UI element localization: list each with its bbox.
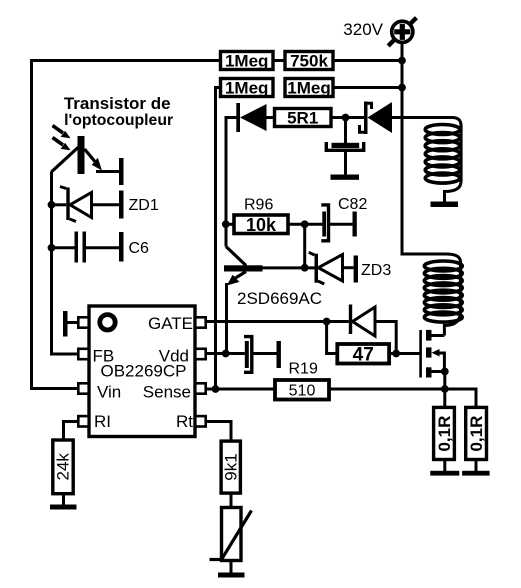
node ZD1	[48, 201, 56, 209]
wire diode to 5R1	[267, 116, 275, 119]
wire Sense row right to shunts	[329, 389, 476, 407]
thermistor	[210, 508, 252, 561]
node R96 right	[301, 220, 309, 228]
inductor primary top coil	[425, 125, 461, 184]
wire C82 node down to base node	[303, 224, 306, 267]
resistor 1Meg (row2 left)	[221, 79, 274, 98]
ground bar ZD1	[119, 191, 124, 219]
svg-text:24k: 24k	[54, 453, 73, 481]
node source	[441, 368, 449, 376]
svg-text:0,1R: 0,1R	[467, 416, 486, 452]
pin RI square	[78, 416, 88, 426]
wire GATE row	[206, 320, 349, 323]
pin Sense square	[195, 383, 205, 393]
wire gate diode right corner down	[375, 322, 396, 354]
resistor 0.1R left	[434, 407, 455, 459]
capacitor snubber	[326, 142, 363, 150]
node R96 left	[222, 220, 230, 228]
wire schottky to top coil	[392, 118, 461, 126]
resistor 750k	[285, 52, 333, 71]
ground under 24k	[50, 505, 77, 510]
wire ZD3 anode to ground bar	[344, 266, 354, 269]
pin Rt square	[195, 416, 205, 426]
capacitor C82	[321, 205, 328, 241]
resistor 24k	[53, 440, 73, 494]
node Vdd	[222, 350, 230, 358]
svg-text:ZD1: ZD1	[129, 197, 159, 214]
svg-text:2SD669AC: 2SD669AC	[237, 289, 322, 308]
wire FB rail up to opto collector	[52, 172, 79, 355]
wire Vdd row	[206, 352, 245, 355]
node gate diode left	[323, 318, 331, 326]
capacitor C6	[75, 232, 87, 263]
svg-text:C82: C82	[338, 196, 367, 213]
node 47 right	[392, 350, 400, 358]
wire 47 right to mosfet gate	[389, 352, 420, 355]
ground under 0.1R left	[430, 471, 459, 476]
svg-text:47: 47	[353, 344, 374, 365]
svg-text:Rt: Rt	[176, 412, 193, 431]
wire mosfet body to source node	[432, 353, 445, 372]
wire opto emitter to ground bar	[96, 170, 119, 173]
wire top coil exit to ground	[445, 182, 462, 203]
resistor 5R1	[275, 109, 332, 128]
wire row1 right to 320V rail	[333, 59, 402, 62]
svg-text:0,1R: 0,1R	[435, 416, 454, 452]
wire RI to 24k	[64, 422, 79, 441]
svg-text:1Meg: 1Meg	[225, 79, 268, 98]
svg-text:10k: 10k	[246, 215, 277, 235]
svg-text:Vin: Vin	[97, 383, 121, 402]
wire pin1 to ground bar	[68, 321, 79, 324]
ground under thermistor	[218, 573, 245, 578]
svg-text:ZD3: ZD3	[361, 262, 391, 279]
svg-text:9k1: 9k1	[222, 453, 241, 480]
wire C6 right to ground bar	[86, 246, 119, 249]
resistor 1Meg (row1)	[221, 52, 274, 71]
resistor 10k	[234, 215, 288, 235]
ground bar opto emitter	[119, 158, 124, 185]
svg-text:l'optocoupleur: l'optocoupleur	[64, 112, 173, 129]
transistor Q2 mosfet	[419, 330, 439, 378]
svg-text:750k: 750k	[290, 52, 328, 71]
ground under snubber cap	[331, 175, 360, 180]
svg-text:320V: 320V	[343, 20, 383, 39]
node base	[301, 264, 309, 272]
inductor lower coil	[424, 261, 462, 323]
pin 1 square	[78, 317, 88, 327]
pin Vin square	[78, 383, 88, 393]
wire 24k to ground	[62, 494, 65, 506]
wire ZD1 left	[52, 203, 67, 206]
ground under top coil	[431, 202, 459, 208]
wire mosfet drain riser and coil exit	[432, 312, 461, 336]
zener ZD3	[309, 252, 343, 284]
pin GATE square	[195, 317, 205, 327]
zener ZD1	[60, 187, 92, 222]
wire Vdd cap to ground bar	[252, 352, 277, 355]
wire source node down to sense line	[443, 372, 446, 408]
diode snubber left	[236, 103, 266, 132]
ground under 0.1R right	[462, 471, 490, 476]
node rail row2	[398, 84, 406, 92]
svg-text:Sense: Sense	[143, 383, 191, 402]
wire thermistor to ground	[230, 561, 233, 574]
svg-text:R19: R19	[289, 360, 318, 377]
node C6	[48, 244, 56, 252]
resistor 0.1R right	[466, 407, 487, 459]
wire 320V rail down into primary winding	[402, 44, 461, 263]
wire snubber node to cap	[344, 118, 347, 144]
svg-text:1Meg: 1Meg	[287, 79, 330, 98]
ground bar ZD3	[354, 256, 358, 283]
diode gate (hollow)	[349, 305, 375, 337]
pin FB square	[78, 349, 88, 359]
pin Vdd square	[195, 349, 205, 359]
wire 5R1 to schottky diode	[331, 116, 364, 119]
wire base to ZD3	[263, 266, 315, 269]
label transistor de l'optocoupleur	[64, 94, 173, 129]
wire 47 left branch	[327, 322, 338, 354]
wire R96 left	[226, 223, 234, 226]
wire row2 left rail down to Sense	[216, 88, 221, 390]
wire R96 right to C82	[288, 223, 322, 226]
resistor 1Meg (row2 right)	[285, 79, 333, 98]
svg-text:C6: C6	[129, 240, 150, 257]
resistor 9k1	[221, 441, 240, 493]
svg-text:R96: R96	[244, 197, 273, 214]
power source 320V	[343, 18, 416, 46]
wire row1 link	[273, 59, 285, 62]
wire snubber left stub and rail down to R96 and collector	[226, 118, 237, 247]
wire Sense row left	[206, 388, 276, 391]
wire C82 to ground bar	[330, 223, 353, 226]
opto light arrows	[53, 126, 71, 151]
wire ZD1 right to ground bar	[92, 203, 120, 206]
wire 0.1R left to ground	[443, 460, 446, 472]
wire snubber cap to ground	[344, 151, 347, 175]
wire Rt to 9k1	[206, 422, 232, 441]
node sense shunt	[441, 385, 449, 393]
svg-text:GATE: GATE	[148, 314, 193, 333]
node rail row1	[398, 57, 406, 65]
wire 0.1R right to ground	[475, 460, 478, 472]
svg-text:OB2269CP: OB2269CP	[101, 361, 187, 380]
node Sense	[212, 385, 220, 393]
ground bar Vdd cap	[277, 341, 281, 368]
resistor 47	[337, 344, 389, 365]
svg-text:5R1: 5R1	[287, 109, 318, 128]
transistor optocoupler	[52, 136, 103, 174]
op-amp U1 OB2269CP body	[89, 306, 195, 437]
capacitor Vdd	[244, 337, 252, 373]
ground bar C82	[353, 212, 357, 237]
wire 9k1 to thermistor	[230, 493, 233, 508]
svg-text:Transistor de: Transistor de	[64, 94, 171, 113]
ground bar pin1	[63, 311, 68, 337]
transistor Q1 2SD669AC	[224, 247, 263, 354]
diode schottky top right	[360, 102, 393, 135]
svg-text:RI: RI	[94, 412, 111, 431]
wire row2 right to 320V rail	[333, 86, 402, 89]
wire C6 left	[52, 246, 75, 249]
resistor 510	[275, 380, 329, 400]
ground bar C6	[119, 232, 124, 262]
svg-text:510: 510	[289, 383, 316, 400]
node snubber	[342, 114, 350, 122]
wire top-left loop from 1Meg to Vin	[32, 61, 221, 389]
svg-text:1Meg: 1Meg	[225, 52, 268, 71]
